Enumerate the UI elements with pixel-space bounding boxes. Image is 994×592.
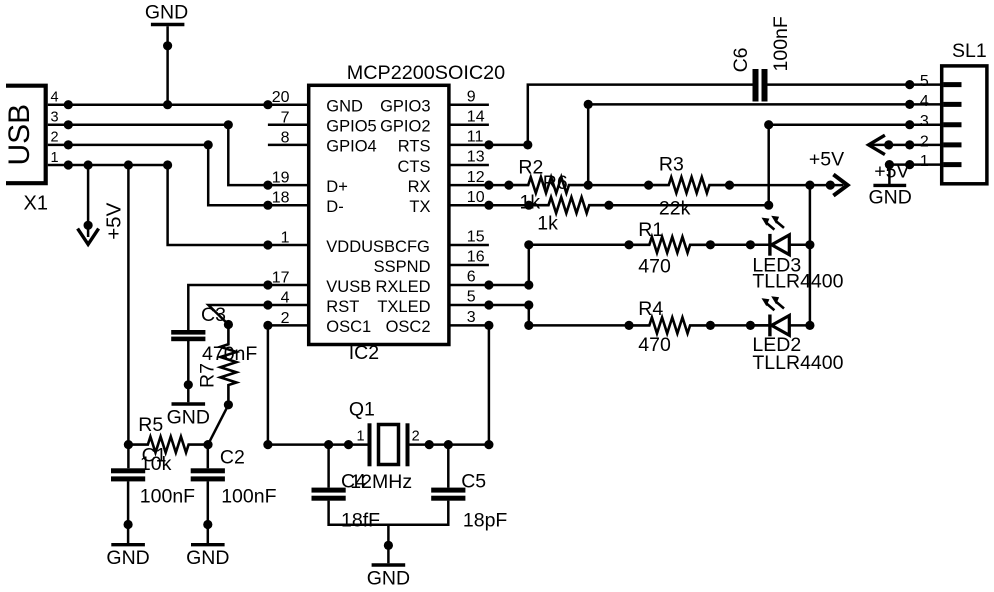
svg-text:RTS: RTS	[398, 138, 431, 156]
svg-text:+5V: +5V	[809, 149, 844, 171]
svg-text:GND: GND	[869, 186, 912, 208]
svg-text:TX: TX	[409, 198, 430, 216]
svg-text:MCP2200SOIC20: MCP2200SOIC20	[347, 62, 505, 84]
wire IC2.12 RX to R2	[484, 181, 513, 190]
ground below C1	[106, 481, 149, 569]
svg-text:+5V: +5V	[103, 202, 126, 239]
svg-text:7: 7	[281, 109, 290, 126]
resistor R3 22k	[649, 153, 735, 219]
svg-text:2: 2	[281, 310, 290, 327]
svg-text:1: 1	[51, 150, 59, 166]
svg-text:2: 2	[412, 429, 420, 445]
svg-text:100nF: 100nF	[770, 16, 792, 71]
svg-text:12MHz: 12MHz	[350, 471, 412, 493]
wire R6 to SL1.3	[609, 120, 914, 210]
svg-text:R1: R1	[638, 219, 663, 241]
capacitor C3 470nF	[171, 304, 257, 365]
wire USB.1 +5V net	[64, 160, 172, 169]
pin X1.4	[48, 90, 69, 106]
wire USB.2 to IC2.18 (D- net)	[64, 140, 273, 210]
svg-text:16: 16	[467, 249, 485, 266]
svg-text:9: 9	[467, 88, 476, 105]
svg-text:D+: D+	[326, 178, 348, 196]
svg-text:CTS: CTS	[398, 158, 431, 176]
resistor R5 10k	[128, 414, 212, 475]
svg-text:2: 2	[51, 130, 59, 146]
svg-text:Q1: Q1	[349, 398, 375, 420]
wire USB.3 to IC2.19 (D+ net)	[64, 120, 273, 189]
svg-text:5: 5	[920, 73, 929, 90]
wire C6 to SL1.5	[768, 80, 915, 89]
supply +5V (left arrow at SL1.2)	[869, 135, 910, 183]
IC2 pin labels	[326, 98, 430, 337]
wire +5V down to R5/C1	[127, 165, 130, 468]
svg-text:15: 15	[467, 229, 485, 246]
svg-text:470: 470	[638, 334, 671, 356]
svg-text:100nF: 100nF	[140, 485, 195, 507]
svg-text:TLLR4400: TLLR4400	[752, 271, 843, 293]
svg-text:4: 4	[51, 90, 59, 106]
wire R2 to R3	[588, 181, 653, 190]
svg-text:R3: R3	[659, 153, 684, 175]
wire R7 to R5/C2 node	[208, 405, 228, 445]
svg-text:TXLED: TXLED	[377, 298, 430, 316]
svg-text:1: 1	[920, 153, 929, 170]
svg-text:GPIO3: GPIO3	[380, 98, 430, 116]
wire IC2.10 TX to R6	[484, 201, 533, 210]
svg-text:14: 14	[467, 109, 485, 126]
svg-text:18: 18	[272, 190, 290, 207]
ground below crystal	[367, 525, 410, 590]
wire SL1.2	[869, 140, 915, 149]
svg-text:R5: R5	[138, 414, 163, 436]
svg-text:VDDUSBCFG: VDDUSBCFG	[326, 238, 430, 256]
svg-text:GPIO5: GPIO5	[326, 118, 376, 136]
connector X1 (USB)	[3, 86, 48, 215]
svg-text:3: 3	[467, 309, 476, 326]
svg-text:GPIO4: GPIO4	[326, 138, 376, 156]
svg-text:1k: 1k	[537, 212, 558, 234]
resistor R4 470	[629, 298, 715, 356]
wire IC2.17 VUSB to C3	[188, 280, 272, 330]
supply +5V (right arrow)	[809, 149, 848, 196]
LED3 TLLR4400	[750, 216, 843, 293]
wire IC2.6 RXLED to R1	[484, 240, 633, 289]
svg-text:OSC1: OSC1	[326, 318, 371, 336]
IC2 left pin stubs and numbers	[268, 89, 309, 327]
LED2 TLLR4400	[750, 296, 843, 374]
svg-text:USB: USB	[3, 104, 36, 166]
wire LED2 to +5V rail	[789, 321, 814, 330]
supply +5V (down arrow)	[78, 165, 126, 244]
svg-text:C6: C6	[730, 47, 752, 72]
svg-text:D-: D-	[326, 198, 343, 216]
svg-text:GND: GND	[186, 547, 229, 569]
svg-text:C5: C5	[461, 470, 486, 492]
svg-text:SL1: SL1	[952, 40, 987, 62]
svg-text:20: 20	[272, 89, 290, 106]
svg-text:RST: RST	[326, 298, 359, 316]
wire R3 to +5V arrow	[730, 181, 844, 190]
svg-text:RXLED: RXLED	[375, 278, 430, 296]
pin X1.1	[48, 150, 69, 166]
svg-text:R6: R6	[543, 172, 568, 194]
svg-text:IC2: IC2	[349, 342, 379, 364]
svg-text:17: 17	[272, 270, 290, 287]
svg-text:100nF: 100nF	[221, 485, 276, 507]
svg-text:GND: GND	[145, 1, 188, 23]
wire C4/C5 to ground	[329, 501, 449, 525]
capacitor C5 18pF	[431, 445, 507, 532]
svg-text:TLLR4400: TLLR4400	[752, 352, 843, 374]
svg-text:11: 11	[467, 129, 484, 146]
svg-text:GPIO2: GPIO2	[380, 118, 430, 136]
connector SL1	[910, 40, 987, 184]
wire R4 to LED2	[710, 321, 768, 330]
svg-text:C2: C2	[220, 447, 245, 469]
svg-text:R7: R7	[197, 363, 219, 388]
wire +5V rail to LEDs	[809, 185, 812, 325]
svg-text:18fF: 18fF	[341, 510, 380, 532]
wire crystal to OSC2	[425, 321, 494, 449]
svg-text:SSPND: SSPND	[374, 258, 431, 276]
svg-text:GND: GND	[167, 406, 210, 428]
svg-text:3: 3	[920, 113, 929, 130]
wire LED3 to +5V rail	[789, 240, 814, 249]
capacitor C1 100nF	[111, 468, 195, 507]
resistor R2 1k	[509, 156, 593, 213]
svg-text:4: 4	[281, 290, 290, 307]
svg-text:RX: RX	[408, 178, 431, 196]
pin X1.2	[48, 130, 69, 146]
svg-text:10: 10	[467, 189, 485, 206]
resistor R6 1k	[529, 172, 614, 235]
svg-text:OSC2: OSC2	[386, 318, 431, 336]
svg-text:6: 6	[467, 269, 476, 286]
wire USB.4 to IC2.20 (GND net)	[64, 100, 273, 109]
svg-text:8: 8	[281, 129, 290, 146]
wire IC2.4 RST to R7	[208, 300, 272, 329]
svg-text:1: 1	[357, 429, 365, 445]
svg-text:R2: R2	[518, 156, 543, 178]
crystal Q1 12MHz	[341, 398, 429, 493]
wire IC2.11 RTS to C6	[484, 85, 752, 150]
svg-text:19: 19	[272, 170, 290, 187]
svg-text:5: 5	[467, 289, 476, 306]
wire +5V to R5	[124, 440, 133, 449]
pin X1.3	[48, 110, 69, 126]
svg-text:C3: C3	[201, 304, 226, 326]
svg-text:R4: R4	[638, 298, 663, 320]
capacitor C6 100nF	[730, 16, 792, 101]
svg-text:3: 3	[51, 110, 59, 126]
wire IC2.5 TXLED to R4	[484, 300, 633, 330]
wire SL1.1	[885, 160, 915, 169]
wire R1 to LED3	[710, 240, 768, 249]
resistor R1 470	[629, 219, 715, 278]
ground below C3	[167, 341, 210, 428]
ground at SL1.1	[869, 165, 912, 209]
svg-text:GND: GND	[367, 567, 410, 589]
wire R5/C2 node to C2	[207, 445, 210, 469]
svg-text:13: 13	[467, 149, 485, 166]
svg-text:VUSB: VUSB	[326, 278, 371, 296]
svg-text:470: 470	[638, 256, 671, 278]
wire RX junction up to SL1.4	[584, 100, 915, 185]
svg-text:X1: X1	[24, 193, 48, 215]
svg-text:GND: GND	[106, 547, 149, 569]
wire IC2.2 OSC1 down to crystal	[263, 321, 353, 449]
svg-text:GND: GND	[326, 98, 363, 116]
svg-text:12: 12	[467, 169, 485, 186]
capacitor C4 18fF	[312, 445, 381, 532]
ground	[145, 1, 188, 109]
capacitor C2 100nF	[191, 447, 277, 508]
IC2 right pin stubs and numbers	[449, 88, 489, 326]
svg-text:4: 4	[920, 93, 929, 110]
wire +5V to IC2.1 (VDD)	[168, 165, 273, 250]
IC IC2 MCP2200SOIC20 box	[309, 62, 505, 364]
ground below C2	[186, 481, 229, 569]
svg-text:22k: 22k	[659, 198, 691, 220]
resistor R7 10k	[197, 325, 237, 410]
svg-text:18pF: 18pF	[463, 510, 508, 532]
svg-text:1: 1	[281, 230, 290, 247]
svg-text:2: 2	[920, 133, 929, 150]
